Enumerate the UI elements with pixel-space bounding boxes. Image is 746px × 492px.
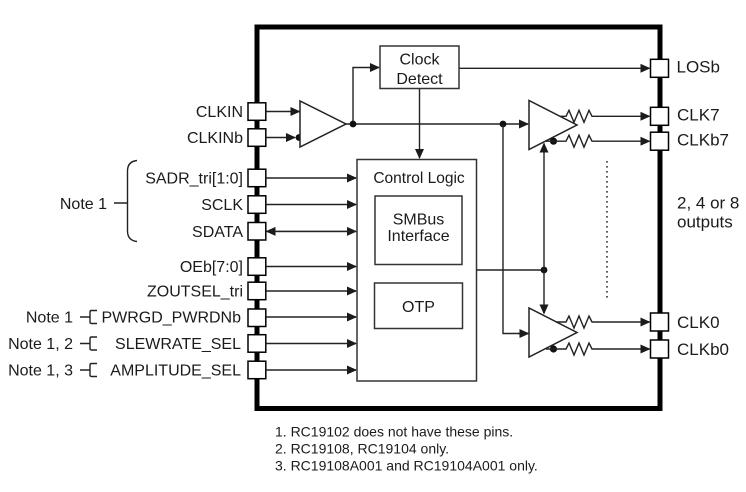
svg-text:outputs: outputs (677, 212, 733, 231)
node: CLKb7 tap dot (550, 138, 557, 145)
svg-text:SLEWRATE_SEL: SLEWRATE_SEL (115, 336, 241, 353)
output buffer U4 (top) (529, 101, 577, 150)
pad CLKIN (248, 103, 266, 121)
wire: ZOUTSEL to control logic (266, 290, 356, 292)
note 1,3 bracket (80, 364, 97, 377)
wire: R7a to CLK7 pad (596, 115, 650, 117)
svg-text:CLKINb: CLKINb (187, 130, 243, 147)
control logic box U3 (357, 160, 477, 382)
node: CLKb0 tap dot (550, 345, 557, 352)
pad PWRGD_PWRDNb (248, 309, 266, 327)
pad SCLK (248, 196, 266, 214)
wire: branch down to bottom output buffer (503, 124, 528, 334)
svg-text:Note 1: Note 1 (26, 310, 73, 327)
svg-text:OEb[7:0]: OEb[7:0] (180, 259, 243, 276)
svg-text:SMBus: SMBus (393, 212, 445, 229)
svg-text:OTP: OTP (402, 299, 435, 316)
note 1 bracket (PWRGD) (80, 311, 97, 324)
wire: enable down to bottom output buffer (543, 270, 545, 314)
IC boundary box (257, 27, 660, 409)
svg-text:Note 1, 2: Note 1, 2 (8, 336, 73, 353)
pad SDATA (248, 223, 266, 241)
svg-text:SDATA: SDATA (192, 224, 243, 241)
OTP box (375, 283, 463, 329)
svg-text:SCLK: SCLK (201, 197, 243, 214)
wire: SCLK to control logic (266, 204, 356, 206)
svg-text:Note 1: Note 1 (60, 196, 107, 213)
wire: clock detect to control logic (419, 89, 421, 159)
SMBus interface box (375, 196, 462, 265)
svg-text:Clock: Clock (399, 52, 440, 69)
wire: AMPLITUDE to control logic (266, 369, 356, 371)
svg-text:CLKb7: CLKb7 (677, 131, 729, 150)
wire: SLEWRATE to control logic (266, 343, 356, 345)
pad SLEWRATE_SEL (248, 335, 266, 353)
pad OEb[7:0] (248, 258, 266, 276)
svg-text:Note 1, 3: Note 1, 3 (8, 363, 73, 380)
pad CLKb7 (651, 132, 669, 150)
wire: enable up to top output buffer (543, 144, 545, 271)
pad SADR_tri[1:0] (248, 169, 266, 187)
wire: main clock line from input buffer to top output buffer (346, 123, 528, 125)
wire: clock detect to LOSb (459, 67, 650, 69)
pad CLK7 (651, 107, 669, 125)
wire: control logic to output buffer enables (477, 269, 545, 271)
svg-text:CLKb0: CLKb0 (677, 340, 729, 359)
wire: R0b to CLKb0 pad (596, 348, 650, 350)
node: CLKINb inverting input dot (296, 134, 303, 141)
svg-text:1. RC19102 does not have these: 1. RC19102 does not have these pins. (275, 424, 513, 440)
wire: PWRGD to control logic (266, 316, 356, 318)
input buffer U1 (300, 101, 346, 147)
svg-text:PWRGD_PWRDNb: PWRGD_PWRDNb (101, 310, 241, 327)
svg-text:AMPLITUDE_SEL: AMPLITUDE_SEL (110, 363, 241, 380)
wire: SADR to control logic (266, 177, 356, 179)
pad CLKINb (248, 129, 266, 147)
svg-text:2. RC19108, RC19104 only.: 2. RC19108, RC19104 only. (275, 441, 449, 457)
node: clock line branch junction (500, 121, 507, 128)
svg-text:Control Logic: Control Logic (373, 170, 465, 187)
resistor R7a (560, 110, 596, 122)
resistor R7b (546, 135, 596, 147)
wire: OEb to control logic (266, 266, 356, 268)
note 1,2 bracket (80, 337, 97, 350)
clock detect box U2 (380, 46, 459, 89)
svg-text:Interface: Interface (387, 228, 449, 245)
wire: CLKIN to input buffer (266, 111, 300, 113)
note 1 brace (114, 161, 137, 242)
svg-text:ZOUTSEL_tri: ZOUTSEL_tri (147, 284, 243, 301)
svg-text:SADR_tri[1:0]: SADR_tri[1:0] (145, 171, 243, 188)
output buffer U5 (bottom) (529, 308, 577, 357)
svg-text:2, 4 or 8: 2, 4 or 8 (677, 194, 739, 213)
resistor R0b (546, 343, 596, 355)
pad ZOUTSEL_tri (248, 282, 266, 300)
svg-text:CLKIN: CLKIN (196, 104, 243, 121)
wire: CLKINb to input buffer (266, 137, 295, 139)
resistor R0a (556, 316, 596, 328)
pad CLK0 (651, 313, 669, 331)
pad CLKb0 (651, 340, 669, 358)
pad AMPLITUDE_SEL (248, 361, 266, 379)
svg-text:LOSb: LOSb (677, 58, 720, 77)
wire: R7b to CLKb7 pad (596, 140, 650, 142)
wire: SDATA bidirectional to control logic (267, 230, 356, 232)
node: input buffer output junction (350, 121, 357, 128)
wire: R0a to CLK0 pad (596, 321, 650, 323)
node: enable branch junction (541, 267, 548, 274)
svg-text:CLK7: CLK7 (677, 105, 720, 124)
svg-text:CLK0: CLK0 (677, 313, 720, 332)
wire: input buffer output to clock detect (up then right) (353, 68, 371, 125)
svg-text:Detect: Detect (396, 71, 443, 88)
svg-text:3. RC19108A001 and RC19104A001: 3. RC19108A001 and RC19104A001 only. (275, 458, 538, 474)
dotted line: more outputs (606, 161, 608, 301)
pad LOSb (651, 59, 669, 77)
